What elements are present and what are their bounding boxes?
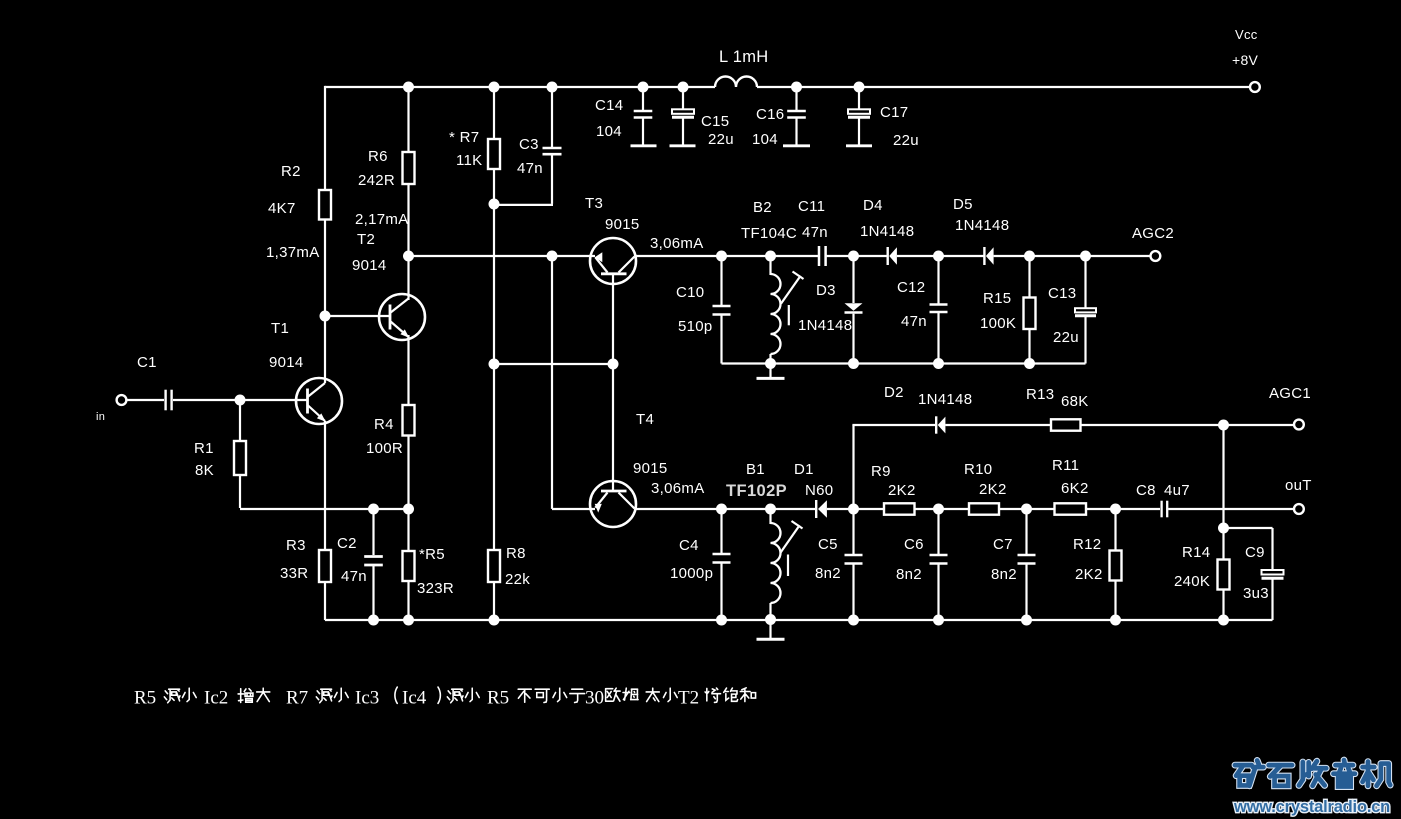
svg-text:C12: C12 xyxy=(897,279,925,296)
label R13 xyxy=(1026,386,1054,403)
svg-text:C3: C3 xyxy=(519,136,539,153)
junction node T3/T4 base tie xyxy=(608,359,619,370)
wire B2 top lead xyxy=(769,256,771,275)
label +8V xyxy=(1232,52,1259,68)
resistor R1 (8K) xyxy=(234,441,246,475)
junction node R11/R12 xyxy=(1110,504,1121,515)
wire R9 to R10 xyxy=(915,508,970,510)
svg-text:R14: R14 xyxy=(1182,544,1210,561)
wire D1 to R9 node xyxy=(827,508,884,510)
inductor B1 coil (TF102P) xyxy=(771,523,781,603)
junction node B1 top xyxy=(765,504,776,515)
svg-text:* R7: * R7 xyxy=(449,129,479,146)
label T4 current 3,06mA xyxy=(651,480,705,497)
label C14 xyxy=(595,97,623,114)
wire R7 top lead xyxy=(493,87,495,139)
wire R15 top lead xyxy=(1028,256,1030,298)
svg-text:www.crystalradio.cn: www.crystalradio.cn xyxy=(1233,798,1390,816)
label R14 value 240K xyxy=(1174,573,1210,590)
svg-text:D2: D2 xyxy=(884,384,904,401)
wire C2 bottom lead xyxy=(372,566,374,620)
svg-text:Ic3: Ic3 xyxy=(355,688,379,709)
svg-text:240K: 240K xyxy=(1174,573,1210,590)
svg-text:C15: C15 xyxy=(701,113,729,130)
wire T1 emitter lead down to R3 xyxy=(324,421,326,550)
wire C15 top lead xyxy=(682,87,684,110)
svg-text:68K: 68K xyxy=(1061,393,1089,410)
svg-text:Ic4: Ic4 xyxy=(402,688,427,709)
wire D2 to R13 xyxy=(945,424,1051,426)
label C7 value 8n2 xyxy=(991,566,1017,583)
wire ground rail xyxy=(325,619,1273,621)
svg-text:C9: C9 xyxy=(1245,544,1265,561)
wire C8 to ouT terminal xyxy=(1168,508,1294,510)
junction node R8 bottom xyxy=(489,615,500,626)
wire C13 top lead xyxy=(1084,256,1086,309)
label R2 xyxy=(281,163,301,180)
svg-text:33R: 33R xyxy=(280,565,308,582)
wire C11 to D4 xyxy=(827,255,887,257)
wire C14 bottom lead and stub xyxy=(631,119,657,146)
svg-text:T4: T4 xyxy=(636,411,654,428)
resistor R2 (4K7) xyxy=(319,190,331,220)
inductor B2 coil (TF104C) xyxy=(771,274,781,354)
label R11 xyxy=(1052,457,1079,474)
wire R5 bottom lead xyxy=(407,581,409,620)
capacitor C17 (22u electrolytic) xyxy=(848,109,870,117)
label C13 xyxy=(1048,285,1076,302)
svg-text:9015: 9015 xyxy=(605,216,640,233)
inductor L1 (L 1mH) bumps on Vcc rail xyxy=(715,77,757,88)
capacitor C1 (series, input coupling) xyxy=(166,390,172,411)
wire R15 bottom lead xyxy=(1028,329,1030,364)
capacitor C13 (22u electrolytic) xyxy=(1075,308,1096,316)
junction node AGC1 column top xyxy=(1218,420,1229,431)
junction node R9/R10/C6 xyxy=(933,504,944,515)
junction node C6 bottom xyxy=(933,615,944,626)
svg-text:4u7: 4u7 xyxy=(1164,482,1190,499)
label R14 xyxy=(1182,544,1210,561)
label R15 xyxy=(983,290,1011,307)
wire R14 bottom lead xyxy=(1222,590,1224,621)
svg-text:2K2: 2K2 xyxy=(1075,566,1103,583)
label D3 type 1N4148 xyxy=(798,317,852,334)
capacitor C2 (47n) xyxy=(364,557,383,566)
label T4 xyxy=(636,411,654,428)
junction node D3 top xyxy=(848,251,859,262)
wire Vcc rail left segment xyxy=(325,86,715,88)
label C10 xyxy=(676,284,704,301)
svg-text:R15: R15 xyxy=(983,290,1011,307)
resistor R3 (33R) xyxy=(319,550,331,582)
wire T4 base lead up from bias node xyxy=(612,364,614,481)
capacitor C12 (47n) xyxy=(930,305,948,313)
wire R4 bottom lead xyxy=(407,436,409,510)
label C2 xyxy=(337,535,357,552)
wire R7 bottom long line down to R8 xyxy=(493,169,495,550)
svg-text:47n: 47n xyxy=(341,568,367,585)
wire R2 bottom to node T2-base/T1-collector xyxy=(324,220,326,317)
svg-text:100K: 100K xyxy=(980,315,1016,332)
label C3 xyxy=(519,136,539,153)
wire C5 bottom lead xyxy=(852,565,854,621)
svg-text:Vcc: Vcc xyxy=(1235,27,1258,42)
svg-text:C14: C14 xyxy=(595,97,623,114)
B1 tuning arrow xyxy=(781,521,803,576)
svg-text:R8: R8 xyxy=(506,545,526,562)
svg-text:1,37mA: 1,37mA xyxy=(266,244,320,261)
svg-text:R10: R10 xyxy=(964,461,992,478)
svg-text:C10: C10 xyxy=(676,284,704,301)
label T2 current 2,17mA xyxy=(355,211,409,228)
svg-text:323R: 323R xyxy=(417,580,454,597)
svg-text:1N4148: 1N4148 xyxy=(955,217,1009,234)
label C10 value 510p xyxy=(678,318,713,335)
wire C14 top lead xyxy=(642,87,644,110)
wire R6 bottom to T2 collector node xyxy=(407,184,409,256)
wire T2 collector lead xyxy=(407,256,409,300)
svg-text:TF104C: TF104C xyxy=(741,225,797,242)
wire AGC1 column down xyxy=(1222,425,1224,560)
diode D2 (1N4148) xyxy=(936,416,945,433)
svg-text:L 1mH: L 1mH xyxy=(719,48,769,66)
junction node bias divider to T3/T4 bases xyxy=(489,359,500,370)
junction node B2 top xyxy=(765,251,776,262)
wire R5 top lead xyxy=(407,509,409,551)
wire R1 bottom lead and corner xyxy=(240,475,409,509)
wire C6 bottom lead xyxy=(937,565,939,621)
svg-text:R7: R7 xyxy=(286,688,308,709)
wire Vcc rail right segment xyxy=(757,86,1250,88)
wire T4 emitter horizontal xyxy=(552,508,595,510)
diode D3 (1N4148) pointing down xyxy=(845,303,863,312)
label R9 xyxy=(871,463,891,480)
resistor R15 (100K) xyxy=(1024,298,1036,330)
svg-text:R6: R6 xyxy=(368,148,388,165)
wire R2 column top (rail corner down to R2) xyxy=(324,86,326,190)
junction node C5 bottom xyxy=(848,615,859,626)
label R1 value 8K xyxy=(195,462,214,479)
label R9 value 2K2 xyxy=(888,482,916,499)
label R3 xyxy=(286,537,306,554)
diode D1 (N60) xyxy=(816,500,827,518)
junction node C9 stub xyxy=(1218,523,1229,534)
wire C17 bottom lead and stub xyxy=(846,119,872,146)
label R12 value 2K2 xyxy=(1075,566,1103,583)
svg-text:R9: R9 xyxy=(871,463,891,480)
svg-text:C8: C8 xyxy=(1136,482,1156,499)
label D3 xyxy=(816,282,836,299)
label R7 designator * R7 xyxy=(449,129,479,146)
wire C10 top lead xyxy=(720,256,722,305)
label D2 type 1N4148 xyxy=(918,391,972,408)
wire T3/T4 emitter tie line down xyxy=(551,256,553,509)
label C2 value 47n xyxy=(341,568,367,585)
wire T2 collector to T3 emitter xyxy=(409,255,596,257)
wire C16 bottom lead and stub xyxy=(783,119,810,146)
resistor R13 (68K) xyxy=(1051,419,1081,430)
wire T2 emitter lead to R4 xyxy=(407,335,409,405)
transistor T4 (9015 PNP) xyxy=(590,481,636,527)
label C3 value 47n xyxy=(517,160,543,177)
svg-text:47n: 47n xyxy=(901,313,927,330)
ground symbol below B1 xyxy=(757,620,785,640)
label C17 xyxy=(880,104,908,121)
svg-text:R4: R4 xyxy=(374,416,394,433)
svg-text:8n2: 8n2 xyxy=(896,566,922,583)
label B1 type TF102P xyxy=(726,482,787,500)
resistor R10 (2K2) xyxy=(969,503,999,514)
wire T1 base xyxy=(240,399,308,401)
junction node R15 bottom xyxy=(1024,358,1035,369)
svg-text:9014: 9014 xyxy=(269,354,304,371)
wire R1 top lead xyxy=(239,400,241,441)
svg-text:+8V: +8V xyxy=(1232,52,1259,68)
label C6 xyxy=(904,536,924,553)
svg-text:9015: 9015 xyxy=(633,460,668,477)
svg-text:C17: C17 xyxy=(880,104,908,121)
svg-text:T2: T2 xyxy=(357,231,375,248)
wire R13 to AGC1 terminal xyxy=(1081,424,1295,426)
label C12 value 47n xyxy=(901,313,927,330)
junction node D3 bottom xyxy=(848,358,859,369)
junction node C4 bottom xyxy=(716,615,727,626)
label T1 current 1,37mA xyxy=(266,244,320,261)
label C14 value 104 xyxy=(596,123,622,140)
svg-text:104: 104 xyxy=(752,131,778,148)
wire B2 bottom lead xyxy=(769,354,771,364)
label D1 xyxy=(794,461,814,478)
wire D5 to AGC2 terminal xyxy=(994,255,1151,257)
capacitor C11 (47n series) xyxy=(819,246,826,266)
label C1 xyxy=(137,354,157,371)
wire C16 top lead xyxy=(795,87,797,110)
label D4 xyxy=(863,197,883,214)
junction node C13 top xyxy=(1080,251,1091,262)
junction node B1 bottom / ground rail xyxy=(765,614,776,625)
wire C5 top lead xyxy=(852,509,854,554)
svg-text:1N4148: 1N4148 xyxy=(918,391,972,408)
capacitor C14 (104) xyxy=(634,111,653,118)
wire AGC2-row bottom rail xyxy=(771,362,1086,364)
transistor T3 (9015 PNP) xyxy=(590,238,636,284)
svg-text:D4: D4 xyxy=(863,197,883,214)
wire T3 collector to C11 xyxy=(635,255,819,257)
svg-text:R1: R1 xyxy=(194,440,214,457)
label C9 xyxy=(1245,544,1265,561)
junction node R4/R5 junction xyxy=(403,504,414,515)
label C11 value 47n xyxy=(802,224,828,241)
junction node R12 bottom xyxy=(1110,615,1121,626)
wire C15 bottom lead and stub xyxy=(670,119,696,146)
svg-text:3,06mA: 3,06mA xyxy=(651,480,705,497)
resistor R4 (100R) xyxy=(403,405,415,436)
label L1 value L 1mH xyxy=(719,48,769,66)
svg-text:104: 104 xyxy=(596,123,622,140)
label R4 xyxy=(374,416,394,433)
wire C10 bottom lead corner xyxy=(722,315,771,364)
label R5 designator *R5 xyxy=(419,546,445,563)
svg-text:C13: C13 xyxy=(1048,285,1076,302)
label C17 value 22u xyxy=(893,132,919,149)
svg-text:47n: 47n xyxy=(517,160,543,177)
capacitor C8 (4u7 series) xyxy=(1162,501,1168,518)
label C4 value 1000p xyxy=(670,565,713,582)
svg-text:1N4148: 1N4148 xyxy=(798,317,852,334)
label R3 value 33R xyxy=(280,565,308,582)
capacitor C6 (8n2) xyxy=(930,555,948,564)
svg-text:11K: 11K xyxy=(456,152,482,169)
svg-text:C5: C5 xyxy=(818,536,838,553)
junction node R5 bottom xyxy=(403,615,414,626)
wire T4 collector to D1 xyxy=(635,508,816,510)
svg-text:R5: R5 xyxy=(487,688,509,709)
wire R8 bottom lead xyxy=(493,582,495,620)
label D4 type 1N4148 xyxy=(860,223,914,240)
wire R11 to C8 xyxy=(1086,508,1160,510)
diode D5 (1N4148) xyxy=(984,247,993,265)
label R7 value 11K xyxy=(456,152,482,169)
label C6 value 8n2 xyxy=(896,566,922,583)
resistor R14 (240K) xyxy=(1218,560,1230,590)
junction node T1 collector / T2 base / R2 xyxy=(320,311,331,322)
wire D2 line left segment xyxy=(852,424,935,426)
svg-text:1000p: 1000p xyxy=(670,565,713,582)
ground symbol below B2 xyxy=(757,364,785,379)
label R8 xyxy=(506,545,526,562)
svg-text:B1: B1 xyxy=(746,461,765,478)
junction node rail/C3 xyxy=(547,82,558,93)
label C7 xyxy=(993,536,1013,553)
svg-text:AGC1: AGC1 xyxy=(1269,385,1311,402)
capacitor C15 (22u electrolytic) xyxy=(672,109,694,117)
svg-text:8n2: 8n2 xyxy=(991,566,1017,583)
label C15 xyxy=(701,113,729,130)
svg-text:3,06mA: 3,06mA xyxy=(650,235,704,252)
svg-text:2K2: 2K2 xyxy=(888,482,916,499)
terminal AGC1 xyxy=(1294,420,1304,430)
svg-text:Ic2: Ic2 xyxy=(204,688,228,709)
junction node C12 bottom xyxy=(933,358,944,369)
wire R12 top lead xyxy=(1114,509,1116,551)
svg-text:22u: 22u xyxy=(708,131,734,148)
wire C4 top lead xyxy=(720,509,722,553)
svg-text:C16: C16 xyxy=(756,106,784,123)
svg-text:1N4148: 1N4148 xyxy=(860,223,914,240)
svg-text:D5: D5 xyxy=(953,196,973,213)
wire T1 collector lead xyxy=(324,316,326,383)
svg-text:D3: D3 xyxy=(816,282,836,299)
wire D3 bottom lead xyxy=(852,314,854,364)
junction node rail/C17 xyxy=(854,82,865,93)
svg-text:3u3: 3u3 xyxy=(1243,585,1269,602)
label C8 value 4u7 xyxy=(1164,482,1190,499)
junction node C12 top xyxy=(933,251,944,262)
svg-text:C6: C6 xyxy=(904,536,924,553)
label AGC1 xyxy=(1269,385,1311,402)
svg-text:30: 30 xyxy=(585,688,604,709)
svg-text:R12: R12 xyxy=(1073,536,1101,553)
resistor R9 (2K2) xyxy=(884,503,915,514)
wire C1 to T1 base node xyxy=(173,399,240,401)
svg-text:C4: C4 xyxy=(679,537,699,554)
label R2 value 4K7 xyxy=(268,200,296,217)
label R6 xyxy=(368,148,388,165)
wire C17 top lead xyxy=(858,87,860,110)
capacitor C10 (510p) xyxy=(713,306,731,315)
svg-text:R5: R5 xyxy=(134,688,156,709)
wire C13 bottom lead corner xyxy=(1084,317,1086,364)
junction node D1/R9/C5/D2-riser xyxy=(848,504,859,515)
svg-text:22u: 22u xyxy=(1053,329,1079,346)
wire C3 bottom lead corner to R7 node xyxy=(494,155,553,205)
wire D4 to D5 xyxy=(897,255,984,257)
junction node C7 bottom xyxy=(1021,615,1032,626)
label D5 type 1N4148 xyxy=(955,217,1009,234)
wire R6 top lead xyxy=(407,87,409,152)
annotation text line (Chinese + refs) xyxy=(134,687,756,709)
label T3 type 9015 xyxy=(605,216,640,233)
svg-text:D1: D1 xyxy=(794,461,814,478)
svg-text:N60: N60 xyxy=(805,482,833,499)
junction node R10/R11/C7 xyxy=(1021,504,1032,515)
svg-text:510p: 510p xyxy=(678,318,713,335)
wire C7 top lead xyxy=(1025,509,1027,554)
svg-text:C2: C2 xyxy=(337,535,357,552)
svg-text:C11: C11 xyxy=(798,198,825,215)
resistor R8 (22k) xyxy=(488,550,500,582)
svg-text:R13: R13 xyxy=(1026,386,1054,403)
wire C12 top lead xyxy=(937,256,939,304)
svg-text:47n: 47n xyxy=(802,224,828,241)
label ouT xyxy=(1285,477,1312,494)
svg-text:22k: 22k xyxy=(505,571,530,588)
capacitor C16 (104) xyxy=(787,111,806,118)
svg-text:242R: 242R xyxy=(358,172,395,189)
wire D2 riser from main line xyxy=(852,425,854,509)
label R11 value 6K2 xyxy=(1061,480,1089,497)
wire C9 stub xyxy=(1224,528,1273,570)
label R6 value 242R xyxy=(358,172,395,189)
label R13 value 68K xyxy=(1061,393,1089,410)
svg-text:ouT: ouT xyxy=(1285,477,1312,494)
svg-text:TF102P: TF102P xyxy=(726,482,787,500)
label T1 xyxy=(271,320,289,337)
junction node rail/C14 xyxy=(638,82,649,93)
svg-text:AGC2: AGC2 xyxy=(1132,225,1174,242)
wire C4 bottom lead xyxy=(720,564,722,621)
svg-text:R3: R3 xyxy=(286,537,306,554)
wire T3 base lead down to bias node xyxy=(612,283,614,364)
wire C2 top lead xyxy=(372,509,374,555)
label C13 value 22u xyxy=(1053,329,1079,346)
svg-text:*R5: *R5 xyxy=(419,546,445,563)
svg-text:R2: R2 xyxy=(281,163,301,180)
label R12 xyxy=(1073,536,1101,553)
label C12 xyxy=(897,279,925,296)
label C16 value 104 xyxy=(752,131,778,148)
label C16 xyxy=(756,106,784,123)
capacitor C5 (8n2) xyxy=(845,555,863,564)
junction node C2 bottom xyxy=(368,615,379,626)
label C4 xyxy=(679,537,699,554)
wire B1 bottom lead xyxy=(769,603,771,619)
wire C9 bottom lead xyxy=(1271,580,1273,621)
junction node R7/C3 junction xyxy=(489,199,500,210)
label C15 value 22u xyxy=(708,131,734,148)
resistor R6 (242R) xyxy=(403,152,415,184)
svg-text:B2: B2 xyxy=(753,199,772,216)
